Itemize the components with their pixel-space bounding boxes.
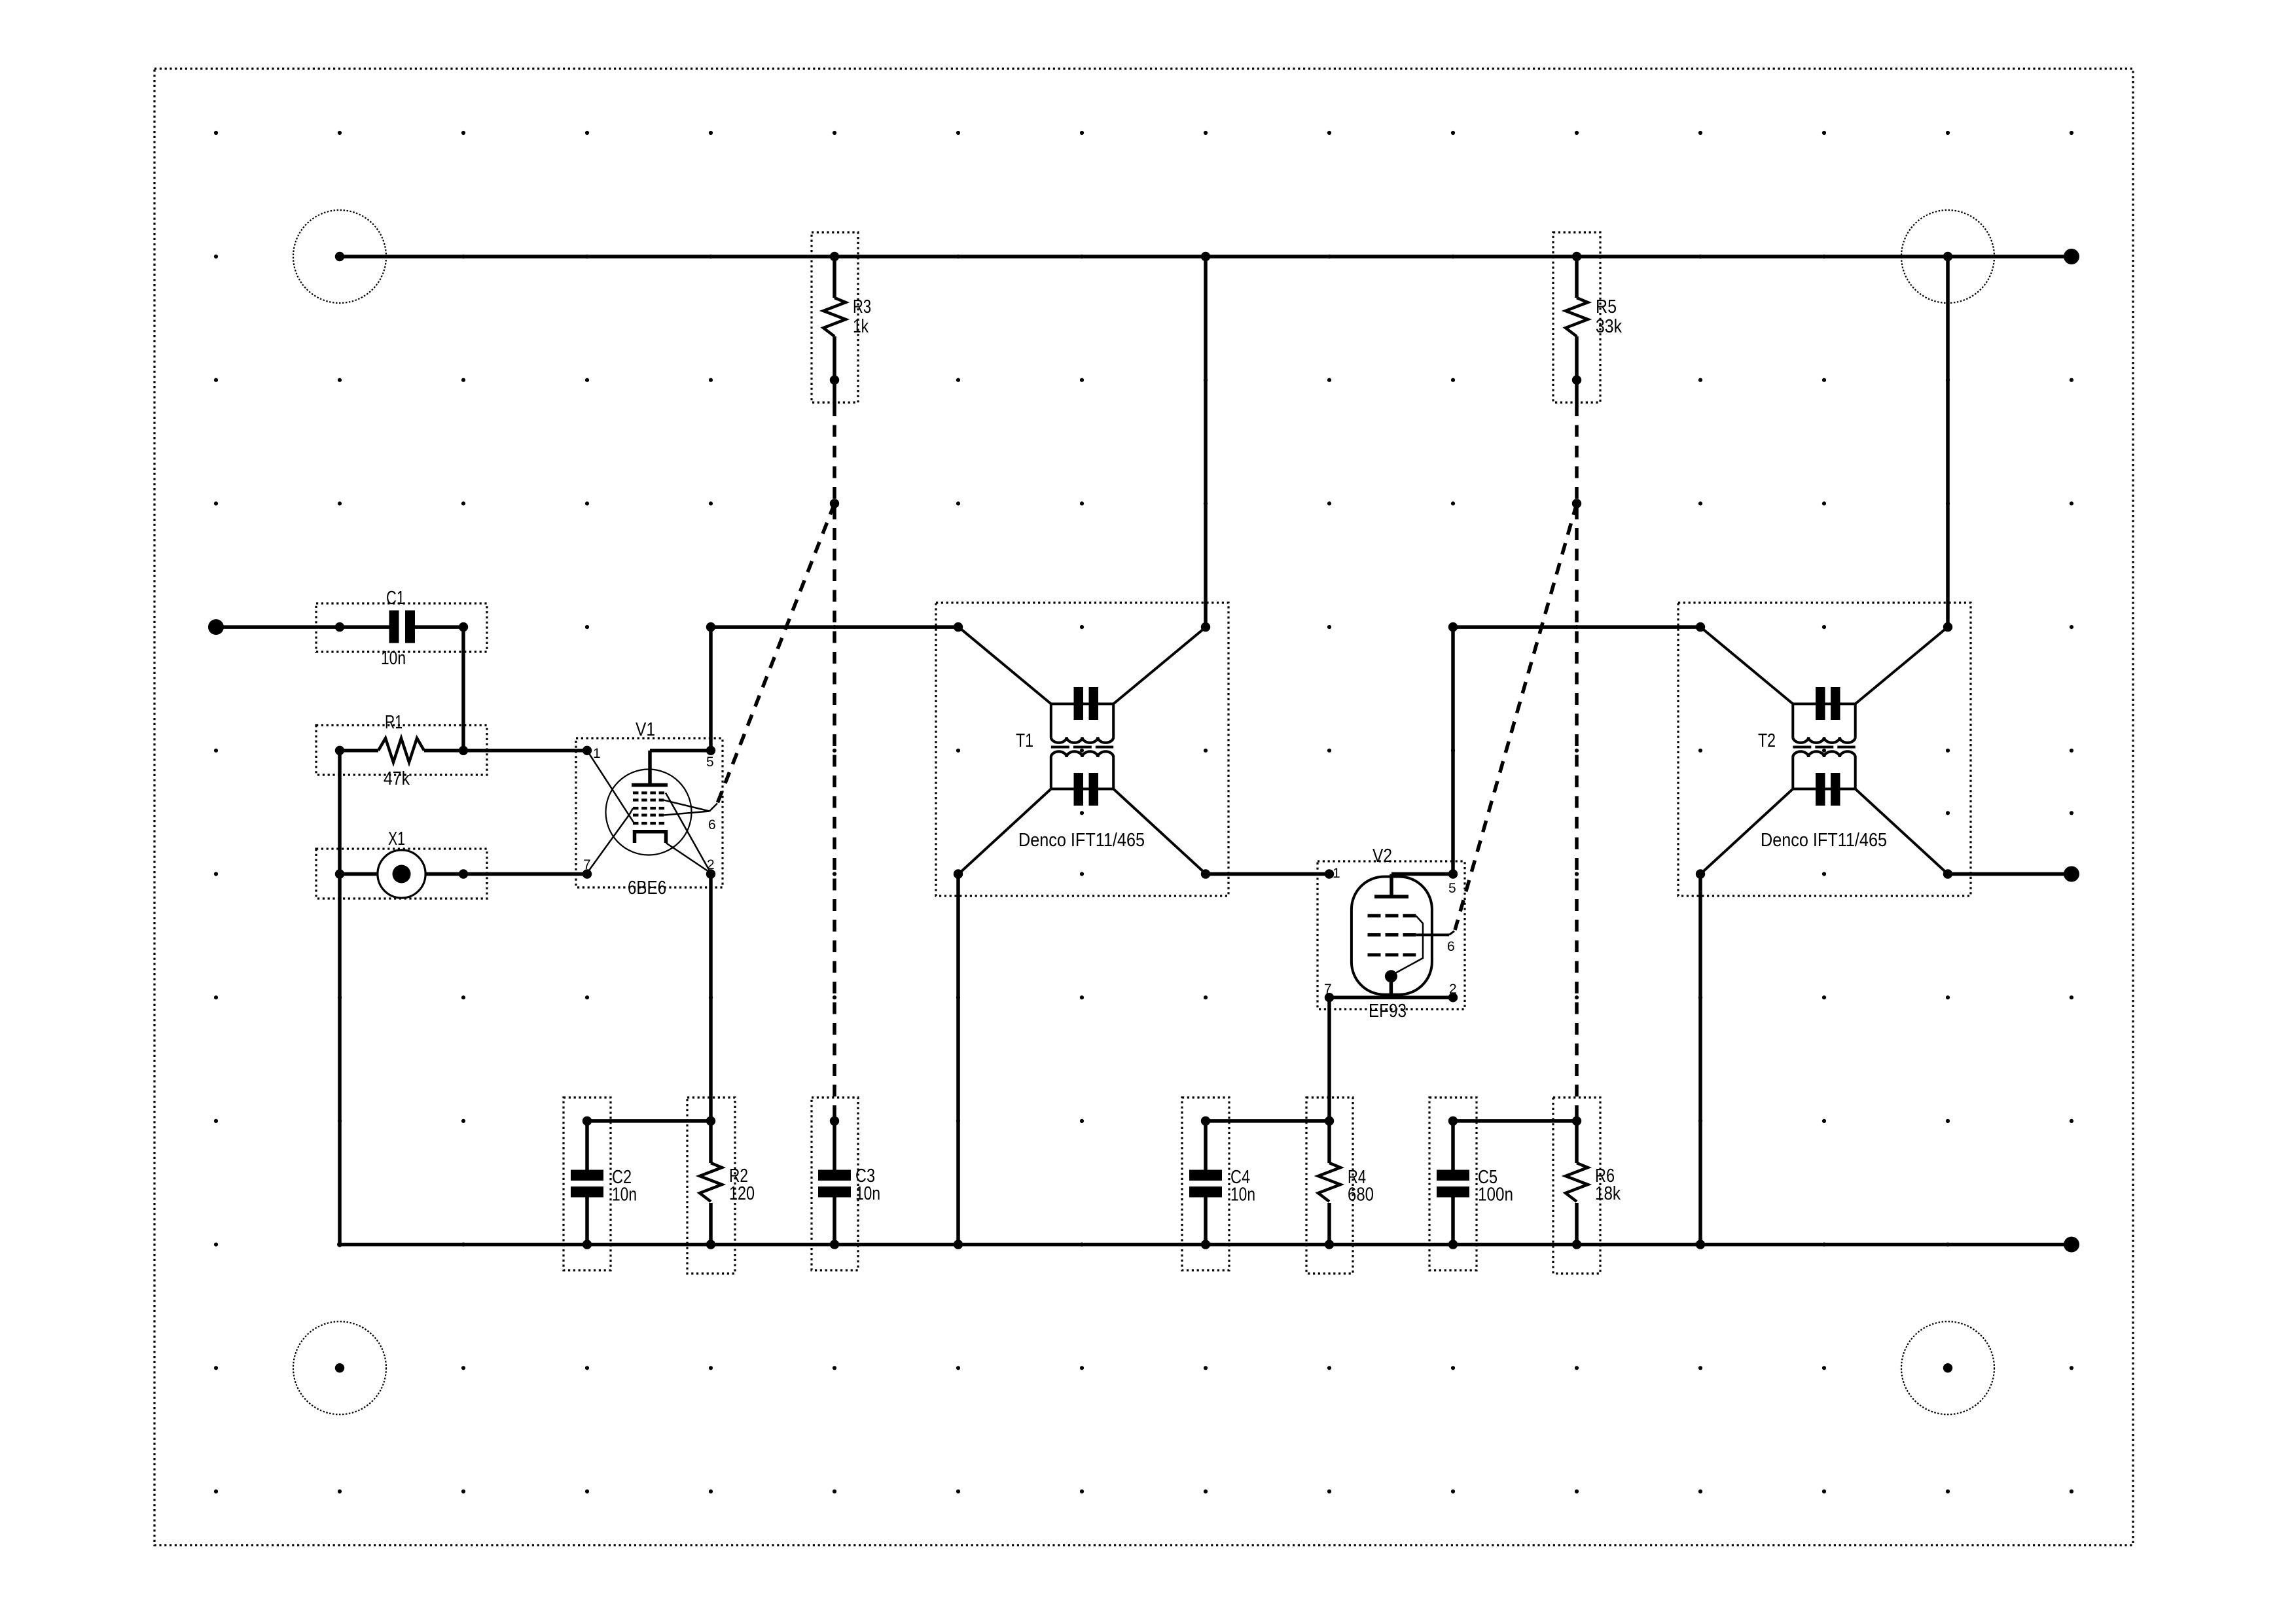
svg-text:5: 5	[706, 755, 714, 770]
svg-text:T2: T2	[1758, 730, 1776, 751]
svg-text:2: 2	[1449, 982, 1457, 997]
svg-text:33k: 33k	[1596, 316, 1622, 337]
svg-text:6BE6: 6BE6	[628, 878, 666, 899]
svg-text:1: 1	[593, 746, 601, 761]
svg-text:18k: 18k	[1595, 1183, 1621, 1204]
svg-text:X1: X1	[388, 829, 405, 849]
svg-text:680: 680	[1348, 1185, 1374, 1205]
svg-text:2: 2	[707, 857, 715, 872]
svg-text:10n: 10n	[381, 648, 406, 669]
svg-text:1k: 1k	[853, 316, 869, 337]
svg-text:R1: R1	[385, 712, 403, 733]
svg-text:C1: C1	[386, 588, 404, 609]
svg-text:Denco IFT11/465: Denco IFT11/465	[1018, 830, 1145, 851]
svg-text:R5: R5	[1596, 296, 1617, 317]
svg-text:6: 6	[1447, 939, 1455, 954]
svg-text:5: 5	[1448, 881, 1456, 896]
svg-text:100n: 100n	[1478, 1185, 1513, 1205]
svg-text:7: 7	[583, 857, 591, 872]
svg-text:1: 1	[1333, 866, 1340, 881]
svg-text:10n: 10n	[1230, 1185, 1255, 1205]
svg-text:V1: V1	[636, 719, 655, 740]
svg-text:6: 6	[708, 817, 716, 832]
svg-text:R3: R3	[853, 296, 871, 317]
svg-text:7: 7	[1324, 982, 1332, 997]
svg-text:10n: 10n	[855, 1183, 880, 1204]
svg-text:V2: V2	[1372, 846, 1392, 866]
svg-text:120: 120	[729, 1183, 755, 1204]
svg-text:47k: 47k	[384, 768, 410, 789]
svg-text:EF93: EF93	[1369, 1001, 1407, 1022]
svg-text:T1: T1	[1016, 730, 1033, 751]
svg-text:Denco IFT11/465: Denco IFT11/465	[1761, 830, 1887, 851]
svg-text:10n: 10n	[612, 1185, 637, 1205]
